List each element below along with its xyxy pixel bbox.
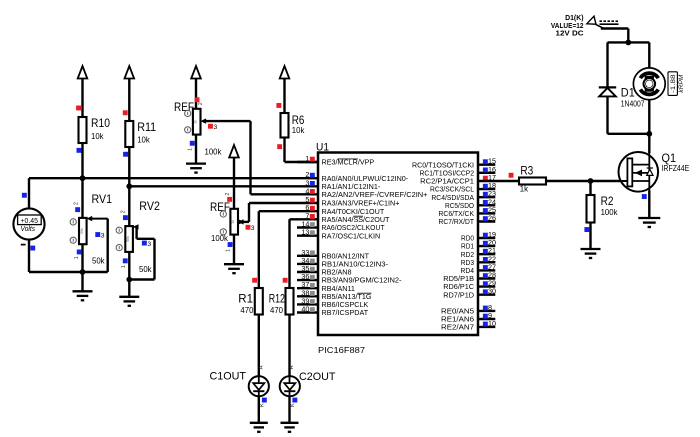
wire bottom rail bbox=[608, 133, 650, 135]
svg-text:RA2/AN2/VREF-/CVREF/C2IN+: RA2/AN2/VREF-/CVREF/C2IN+ bbox=[322, 190, 428, 199]
svg-text:RV1: RV1 bbox=[92, 194, 113, 206]
resistor R2 bbox=[587, 195, 595, 223]
wire R10 top bbox=[81, 79, 83, 118]
wire R6 to pin 1 MCLR bbox=[285, 161, 319, 163]
wire RV2 wiper to bottom node bbox=[129, 278, 154, 280]
transistor Q1 IRFZ44E N-MOSFET bbox=[619, 152, 659, 192]
wire R3 to Q1 gate bbox=[546, 180, 628, 182]
wire supply drop bbox=[627, 29, 629, 43]
ground REF lower pot bbox=[224, 264, 244, 273]
svg-text:10: 10 bbox=[488, 319, 496, 328]
wire net C2IN+ to pin 4 bbox=[251, 193, 319, 195]
wire REF lower pot supply bbox=[233, 158, 235, 209]
svg-text:VALUE=12: VALUE=12 bbox=[551, 23, 584, 30]
svg-text:K: K bbox=[290, 403, 296, 407]
svg-text:RC7/RX/DT: RC7/RX/DT bbox=[439, 217, 475, 226]
pin 20 blue bbox=[478, 245, 495, 247]
wire source inside bbox=[648, 181, 650, 192]
wire pin6 down to R1 bbox=[258, 211, 260, 288]
svg-text:R12: R12 bbox=[269, 294, 285, 306]
svg-text:R3: R3 bbox=[520, 166, 533, 178]
wire RV2 wiper step right bbox=[137, 238, 155, 240]
svg-text:REF: REF bbox=[210, 202, 230, 214]
svg-text:3: 3 bbox=[214, 124, 218, 131]
svg-text:D1: D1 bbox=[621, 88, 635, 100]
resistor R3 bbox=[519, 178, 546, 185]
svg-text:IRFZ44E: IRFZ44E bbox=[662, 164, 690, 173]
resistor R11 bbox=[125, 121, 133, 147]
svg-text:26: 26 bbox=[488, 214, 496, 223]
svg-text:C2OUT: C2OUT bbox=[299, 371, 336, 383]
junction bottom rail/drain bbox=[646, 131, 652, 137]
junction RV1 bottom node bbox=[80, 269, 86, 275]
junction supply/top rail bbox=[625, 40, 631, 46]
power terminal above R10 bbox=[78, 66, 88, 79]
pin 17 red bbox=[483, 176, 488, 181]
wire drain inside bbox=[648, 152, 650, 165]
power terminal above R6 bbox=[280, 66, 290, 79]
pin 13 gray bbox=[297, 234, 318, 236]
svg-text:4: 4 bbox=[305, 186, 309, 195]
junction gate node R2 bbox=[588, 178, 594, 184]
wire RV2 wiper arm bbox=[135, 226, 136, 228]
pin 10 blue bbox=[478, 326, 495, 328]
svg-text:1k: 1k bbox=[520, 184, 528, 193]
svg-text:RV2: RV2 bbox=[139, 201, 160, 213]
node marker voltmeter - bbox=[30, 246, 35, 251]
wire pin7 down to R12 bbox=[288, 219, 290, 288]
wire RV2 wiper down bbox=[153, 239, 155, 280]
pin 22 blue bbox=[478, 261, 495, 263]
power terminal above REF top pot bbox=[191, 66, 201, 79]
pin 35 gray bbox=[297, 271, 318, 273]
wire REF top pot to ground bbox=[195, 135, 197, 164]
svg-text:1: 1 bbox=[226, 249, 232, 252]
resistor R1 bbox=[255, 288, 263, 315]
svg-text:13: 13 bbox=[301, 228, 309, 237]
diode D1 1N4007 bbox=[599, 87, 616, 96]
svg-text:A: A bbox=[289, 365, 295, 369]
svg-text:10k: 10k bbox=[91, 132, 104, 141]
resistor R6 bbox=[281, 113, 289, 138]
pin 33 gray bbox=[297, 255, 318, 257]
svg-text:40: 40 bbox=[301, 305, 309, 314]
ground RV1 bbox=[73, 291, 93, 300]
pin 36 gray bbox=[297, 279, 318, 281]
node marker voltmeter + bbox=[22, 193, 27, 198]
LED C2OUT bbox=[280, 376, 300, 396]
wire net C2OUT pin 7 bbox=[290, 218, 319, 220]
wire RV1 bottom to ground bbox=[81, 244, 83, 291]
voltmeter +0.45 Volts bbox=[13, 208, 44, 239]
pin 7 red bbox=[310, 214, 315, 219]
wire top rail bbox=[608, 41, 650, 43]
wire pin 17 to R3 bbox=[478, 180, 519, 182]
svg-text:RB7/ICSPDAT: RB7/ICSPDAT bbox=[322, 308, 369, 317]
wire voltmeter + lead bbox=[28, 178, 30, 208]
pin 15 blue bbox=[478, 163, 495, 165]
svg-text:2: 2 bbox=[120, 210, 126, 213]
svg-text:10k: 10k bbox=[137, 136, 150, 145]
svg-text:3: 3 bbox=[147, 241, 151, 248]
svg-text:3: 3 bbox=[101, 232, 105, 239]
wire node to RV2 top bbox=[128, 186, 130, 226]
power terminal above R11 bbox=[125, 66, 135, 79]
svg-text:3: 3 bbox=[251, 225, 255, 232]
wire R2 to ground bbox=[589, 223, 591, 250]
svg-text:K: K bbox=[260, 403, 266, 407]
pin 27 blue bbox=[478, 269, 495, 271]
ground RV2 bbox=[119, 297, 139, 306]
wire REF lower wiper arm bbox=[240, 221, 249, 223]
pin 39 gray bbox=[297, 303, 318, 305]
pin 5 red bbox=[310, 198, 315, 203]
wire drain lead bbox=[648, 134, 650, 153]
wire REF lower wiper riser to pin 5 net bbox=[248, 203, 250, 222]
pin 14 gray bbox=[297, 226, 318, 228]
resistor R12 bbox=[286, 288, 294, 315]
pin 9 blue bbox=[478, 318, 495, 320]
svg-text:1k: 1k bbox=[231, 220, 235, 224]
overline T1G bbox=[358, 292, 372, 294]
pin 6 red bbox=[310, 206, 315, 211]
svg-text:kRPM: kRPM bbox=[678, 74, 685, 93]
wire source lead to ground bbox=[648, 191, 650, 219]
pin 3 blue bbox=[310, 181, 315, 186]
wire REF top pot supply bbox=[195, 79, 197, 109]
svg-text:470: 470 bbox=[240, 306, 254, 315]
svg-text:30: 30 bbox=[488, 287, 496, 296]
svg-text:50k: 50k bbox=[80, 228, 84, 234]
wire R6 top bbox=[283, 79, 285, 114]
wire diode branch lower bbox=[606, 96, 608, 133]
svg-text:2: 2 bbox=[74, 202, 80, 205]
junction RV2/R11 node bbox=[126, 183, 132, 189]
pin 38 gray bbox=[297, 295, 318, 297]
svg-text:Volts: Volts bbox=[21, 226, 36, 233]
wire net C1IN+ to pin 5 bbox=[249, 202, 318, 204]
potentiometer REF (top) body bbox=[193, 109, 201, 135]
ground LED C2OUT bbox=[281, 423, 299, 432]
svg-text:R10: R10 bbox=[91, 118, 110, 130]
svg-text:12V DC: 12V DC bbox=[556, 31, 584, 38]
wire RV2 bottom to ground bbox=[128, 252, 130, 297]
wire diode branch upper bbox=[606, 42, 608, 87]
pin 37 gray bbox=[297, 287, 318, 289]
pin 2 blue bbox=[310, 173, 315, 178]
potentiometer RV2 body bbox=[125, 226, 133, 252]
wire R11 bottom to node bbox=[128, 147, 130, 186]
microcontroller U1 PIC16F887 bbox=[318, 153, 478, 336]
pin 8 blue bbox=[478, 310, 495, 312]
svg-text:100k: 100k bbox=[211, 234, 228, 243]
wire R6 bottom bbox=[283, 138, 285, 163]
svg-text:-1.88: -1.88 bbox=[670, 74, 677, 93]
svg-text:Q1: Q1 bbox=[662, 153, 677, 165]
svg-text:R2: R2 bbox=[601, 196, 614, 208]
svg-text:D1(K): D1(K) bbox=[565, 15, 583, 22]
motor rpm display -1.88 kRPM bbox=[668, 72, 677, 96]
wire net RA0/C12IN0- to pin 2 bbox=[29, 177, 318, 179]
pin 28 blue bbox=[478, 277, 495, 279]
wire R10 bottom to node bbox=[81, 143, 83, 178]
wire node to RV1 top bbox=[81, 178, 83, 218]
svg-text:1N4007: 1N4007 bbox=[621, 100, 645, 109]
pin 25 blue bbox=[478, 212, 495, 214]
pin 18 blue bbox=[478, 188, 495, 190]
svg-text:C1OUT: C1OUT bbox=[210, 370, 247, 382]
pin 4 red bbox=[310, 189, 315, 194]
wire motor bottom lead bbox=[648, 100, 650, 134]
svg-text:R11: R11 bbox=[137, 122, 156, 134]
wire motor top lead bbox=[648, 42, 650, 68]
pin 30 blue bbox=[478, 294, 495, 296]
svg-text:PIC16F887: PIC16F887 bbox=[318, 345, 365, 355]
wire LED C2OUT cathode to ground bbox=[288, 396, 290, 423]
svg-text:RE2/AN7: RE2/AN7 bbox=[441, 323, 474, 332]
wire REF top wiper arm bbox=[203, 120, 251, 122]
svg-text:50k: 50k bbox=[139, 265, 152, 274]
ground REF top pot bbox=[186, 164, 206, 173]
svg-text:1: 1 bbox=[305, 154, 309, 163]
pin 16 blue bbox=[478, 172, 495, 174]
svg-text:U1: U1 bbox=[316, 142, 329, 154]
pin 24 blue bbox=[478, 204, 495, 206]
svg-text:100k: 100k bbox=[601, 208, 618, 217]
ground Q1 source bbox=[638, 218, 660, 227]
resistor R10 bbox=[79, 117, 87, 143]
svg-text:RD7/P1D: RD7/P1D bbox=[443, 290, 474, 299]
wire RV2 wiper step down bbox=[135, 227, 137, 239]
wire voltmeter - lead bbox=[28, 239, 30, 272]
wire R11 top bbox=[128, 79, 130, 122]
junction RV2 bottom node bbox=[126, 277, 132, 283]
potentiometer REF (lower) body bbox=[230, 209, 238, 235]
junction RV1/R10 node bbox=[80, 175, 86, 181]
svg-text:50k: 50k bbox=[126, 236, 130, 242]
wire supply horizontal bbox=[601, 27, 629, 29]
power terminal D1(K) 12V DC bbox=[587, 16, 596, 24]
wire voltmeter to RV1 bottom node bbox=[29, 271, 83, 273]
pin 23 blue bbox=[478, 196, 495, 198]
motor (load) with D1 kRPM display bbox=[633, 68, 665, 100]
pin 26 blue bbox=[478, 220, 495, 222]
pin 21 blue bbox=[478, 253, 495, 255]
ground R2 bbox=[581, 249, 601, 258]
svg-text:2: 2 bbox=[198, 102, 204, 105]
wire R12 to LED C2OUT anode bbox=[288, 315, 290, 376]
pin 40 gray bbox=[297, 311, 318, 313]
svg-text:1: 1 bbox=[187, 148, 193, 151]
wire RV1 wiper arm bbox=[89, 218, 108, 220]
overline MCLR bbox=[338, 158, 358, 160]
svg-text:2: 2 bbox=[225, 193, 231, 196]
wire RV1 wiper down bbox=[106, 219, 108, 272]
svg-text:50k: 50k bbox=[92, 256, 105, 265]
pin 19 blue bbox=[478, 237, 495, 239]
pin 29 blue bbox=[478, 285, 495, 287]
wire gate node to R2 bbox=[589, 181, 591, 195]
potentiometer RV1 body bbox=[79, 218, 87, 244]
wire REF top wiper riser to pin 4 net bbox=[249, 121, 251, 194]
pin 1 red bbox=[297, 161, 318, 163]
wire R1 to LED C1OUT anode bbox=[258, 315, 260, 376]
svg-text:100k: 100k bbox=[205, 147, 222, 156]
wire net RA1/C12IN1- to pin 3 bbox=[129, 185, 318, 187]
overline SS bbox=[354, 215, 364, 217]
svg-text:R6: R6 bbox=[292, 115, 305, 127]
svg-text:RA7/OSC1/CLKIN: RA7/OSC1/CLKIN bbox=[322, 231, 381, 240]
wire LED C1OUT cathode to ground bbox=[258, 396, 260, 423]
LED C1OUT bbox=[249, 376, 269, 396]
wire net C1OUT pin 6 bbox=[259, 210, 318, 212]
svg-text:R1: R1 bbox=[238, 294, 253, 306]
svg-text:10k: 10k bbox=[292, 126, 305, 135]
wire REF lower pot to ground bbox=[233, 235, 235, 265]
ground LED C1OUT bbox=[250, 423, 268, 432]
power terminal above REF lower pot bbox=[229, 145, 239, 158]
svg-text:1k: 1k bbox=[194, 120, 198, 124]
wire RV1 wiper to bottom node bbox=[83, 271, 108, 273]
svg-text:A: A bbox=[259, 365, 265, 369]
svg-text:1: 1 bbox=[121, 265, 127, 268]
svg-text:470: 470 bbox=[270, 306, 284, 315]
pin 34 gray bbox=[297, 263, 318, 265]
svg-text:1: 1 bbox=[74, 256, 80, 259]
svg-text:+0.45: +0.45 bbox=[20, 218, 38, 225]
